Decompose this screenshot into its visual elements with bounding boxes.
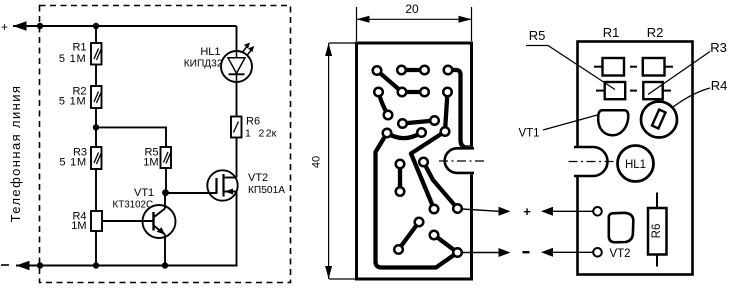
pad mid d xyxy=(383,129,392,138)
pad row1 c xyxy=(420,66,429,75)
trace P8-N xyxy=(445,92,448,132)
svg-text:1М: 1М xyxy=(143,157,158,169)
trace X-Y xyxy=(434,235,458,253)
LED HL1 xyxy=(184,43,255,83)
resistor R6 xyxy=(231,116,277,140)
centre dash-dot line xyxy=(439,160,487,162)
resistor R6 xyxy=(648,193,667,267)
trace P4 right edge xyxy=(448,70,471,148)
label VT1 with leader xyxy=(518,115,599,140)
svg-text:1М: 1М xyxy=(71,220,86,232)
wire VT2 source to rail xyxy=(236,192,238,266)
board outline xyxy=(357,43,472,279)
svg-text:HL1: HL1 xyxy=(625,159,646,171)
svg-text:R1: R1 xyxy=(72,42,86,54)
svg-text:R6: R6 xyxy=(246,116,260,128)
pad row1 b xyxy=(397,66,406,75)
pad notch xyxy=(419,158,428,167)
pad row2 b xyxy=(398,88,407,97)
trace J-L xyxy=(403,121,435,124)
svg-text:R2: R2 xyxy=(647,25,664,40)
trace Q-U xyxy=(424,162,458,209)
label R5 with leader xyxy=(526,28,615,90)
pad low c xyxy=(430,205,439,214)
pad plus xyxy=(593,207,602,216)
node minus terminal xyxy=(16,261,238,271)
traces xyxy=(376,70,472,268)
wire minus output xyxy=(462,252,499,254)
wire R5 bottom xyxy=(165,168,167,193)
notch cutout xyxy=(445,147,478,174)
transistor VT2 xyxy=(207,170,285,200)
wire R6 to VT2 drain xyxy=(236,138,238,178)
svg-text:КИПД32: КИПД32 xyxy=(184,59,223,70)
centre dash-dot line xyxy=(569,161,618,163)
pad low f xyxy=(430,231,439,240)
label minus xyxy=(1,264,9,266)
svg-text:КП501А: КП501А xyxy=(248,185,285,196)
svg-text:R1: R1 xyxy=(603,25,620,40)
wire to R5 xyxy=(96,127,166,147)
pad minus output xyxy=(453,248,462,257)
board outline xyxy=(578,42,693,275)
wire plus output xyxy=(462,209,499,211)
pad row1 a xyxy=(373,66,382,75)
dashed enclosure border xyxy=(40,6,291,283)
junction R5-VT1-VT2 xyxy=(162,189,169,196)
pad low e xyxy=(394,245,403,254)
svg-text:VT2: VT2 xyxy=(248,172,268,184)
resistor R1 square xyxy=(594,58,637,76)
transistor VT1 outline xyxy=(598,110,628,135)
label minus net xyxy=(523,251,530,253)
svg-text:Телефонная линия: Телефонная линия xyxy=(8,85,23,223)
trace P2-P3 xyxy=(402,68,425,72)
pad row2 a xyxy=(374,88,383,97)
trace R-S xyxy=(398,164,402,192)
label R3 with leader xyxy=(648,40,727,95)
pad low a xyxy=(396,160,405,169)
resistor R5 square xyxy=(596,82,637,99)
svg-text:5 1М: 5 1М xyxy=(59,53,87,65)
node plus terminal xyxy=(13,21,237,31)
dimension 20 xyxy=(357,2,472,41)
resistor R3 square xyxy=(643,82,671,99)
pad row2 c xyxy=(420,88,429,97)
pad row2 d xyxy=(443,88,452,97)
wire base VT1 xyxy=(102,220,154,222)
wire gate VT2 xyxy=(166,192,217,194)
resistor R4 xyxy=(71,211,102,233)
svg-text:122к: 122к xyxy=(245,128,277,140)
svg-text:R5: R5 xyxy=(529,28,546,43)
wire plus input xyxy=(547,210,593,212)
svg-text:VT1: VT1 xyxy=(134,187,154,199)
resistor R2 square xyxy=(643,58,673,76)
svg-text:40: 40 xyxy=(311,156,323,168)
pad low d xyxy=(415,218,424,227)
trace P5-I xyxy=(379,92,389,115)
junction bottom-left xyxy=(37,262,43,268)
svg-text:R3: R3 xyxy=(710,40,727,55)
trace P1-P6 xyxy=(377,71,402,93)
trace V-W xyxy=(399,222,420,250)
trace K-M sag xyxy=(387,133,422,139)
pad mid f xyxy=(441,127,450,136)
wire minus input xyxy=(547,251,593,253)
pad row1 d xyxy=(444,66,453,75)
wire VT2 branch vertical xyxy=(236,26,238,51)
resistor R4 circle xyxy=(641,102,677,138)
pad minus xyxy=(593,248,602,257)
resistor R5 xyxy=(143,147,171,169)
transistor VT2 outline xyxy=(609,213,634,243)
svg-text:5 1М: 5 1М xyxy=(59,96,87,108)
pad mid b xyxy=(398,119,407,128)
wire HL1 to R6 xyxy=(236,82,238,117)
svg-text:+: + xyxy=(523,204,531,219)
pad low b xyxy=(396,187,405,196)
resistor R2 xyxy=(59,86,102,109)
svg-text:VT1: VT1 xyxy=(518,128,539,140)
wire resistor chain xyxy=(95,26,97,266)
svg-text:20: 20 xyxy=(405,2,419,16)
svg-text:HL1: HL1 xyxy=(200,46,220,58)
pad mid a xyxy=(384,111,393,120)
svg-text:+: + xyxy=(1,20,8,34)
dimension 40 xyxy=(311,43,357,279)
svg-text:R6: R6 xyxy=(651,224,663,239)
svg-text:КТ3102С: КТ3102С xyxy=(113,200,154,211)
transistor VT1 xyxy=(113,187,176,266)
pad mid c xyxy=(430,116,439,125)
junction top R1 xyxy=(93,23,99,29)
LED HL1 circle xyxy=(618,146,654,182)
svg-text:VT2: VT2 xyxy=(609,248,630,260)
svg-text:R4: R4 xyxy=(711,78,728,93)
pad mid e xyxy=(417,128,426,137)
label R4 with leader xyxy=(673,78,727,107)
junction bottom VT1 emitter xyxy=(162,262,168,268)
trace P6-P7 xyxy=(402,90,425,94)
trace N-T xyxy=(411,132,445,210)
notch cutout left xyxy=(574,147,608,176)
svg-text:5 1М: 5 1М xyxy=(59,157,87,169)
trace K bottom loop xyxy=(376,133,458,268)
resistor R1 xyxy=(59,42,102,66)
junction node R2-R5 xyxy=(93,124,99,130)
pad plus output xyxy=(453,204,462,213)
resistor R3 xyxy=(59,147,101,170)
junction bottom R4 xyxy=(93,262,99,268)
junction top-left xyxy=(37,23,43,29)
